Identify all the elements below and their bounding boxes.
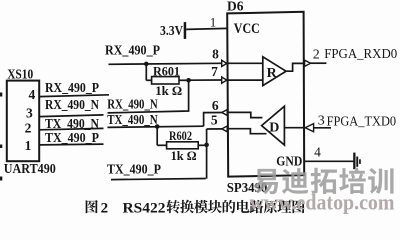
svg-text:VCC: VCC — [234, 21, 260, 37]
svg-text:FPGA_RXD0: FPGA_RXD0 — [324, 47, 397, 62]
svg-text:RX_490_P: RX_490_P — [45, 81, 99, 96]
svg-text:TX_490_N: TX_490_N — [107, 112, 158, 127]
svg-text:FPGA_TXD0: FPGA_TXD0 — [327, 114, 397, 129]
svg-text:TX_490_N: TX_490_N — [45, 117, 99, 132]
svg-text:4: 4 — [314, 144, 321, 159]
svg-text:www.edatop.com: www.edatop.com — [250, 190, 395, 215]
svg-text:TX_490_P: TX_490_P — [45, 131, 99, 146]
svg-text:8: 8 — [212, 47, 219, 62]
svg-text:R601: R601 — [153, 63, 180, 78]
svg-text:7: 7 — [211, 64, 218, 79]
svg-text:RX_490_N: RX_490_N — [107, 97, 158, 112]
svg-text:3: 3 — [26, 105, 33, 120]
svg-text:R: R — [267, 66, 278, 81]
svg-text:R602: R602 — [169, 128, 192, 143]
svg-text:1k Ω: 1k Ω — [155, 83, 182, 98]
svg-text:D: D — [269, 121, 279, 136]
svg-text:RS422: RS422 — [123, 200, 166, 216]
svg-text:TX_490_P: TX_490_P — [107, 163, 161, 178]
svg-text:3: 3 — [318, 113, 325, 128]
svg-text:5: 5 — [211, 112, 218, 127]
svg-text:4: 4 — [28, 87, 35, 102]
svg-text:3.3V: 3.3V — [160, 23, 183, 38]
svg-text:XS10: XS10 — [7, 67, 33, 82]
svg-text:1: 1 — [210, 15, 217, 30]
svg-text:D6: D6 — [227, 0, 244, 15]
svg-text:GND: GND — [276, 155, 302, 170]
svg-text:1: 1 — [25, 138, 32, 153]
svg-text:1k Ω: 1k Ω — [171, 148, 197, 163]
svg-text:UART490: UART490 — [4, 162, 56, 177]
svg-text:RX_490_N: RX_490_N — [45, 98, 99, 113]
svg-text:2: 2 — [313, 48, 320, 63]
svg-text:6: 6 — [212, 98, 219, 113]
svg-text:2: 2 — [25, 120, 32, 135]
svg-text:2: 2 — [101, 200, 109, 216]
svg-text:RX_490_P: RX_490_P — [105, 43, 160, 58]
